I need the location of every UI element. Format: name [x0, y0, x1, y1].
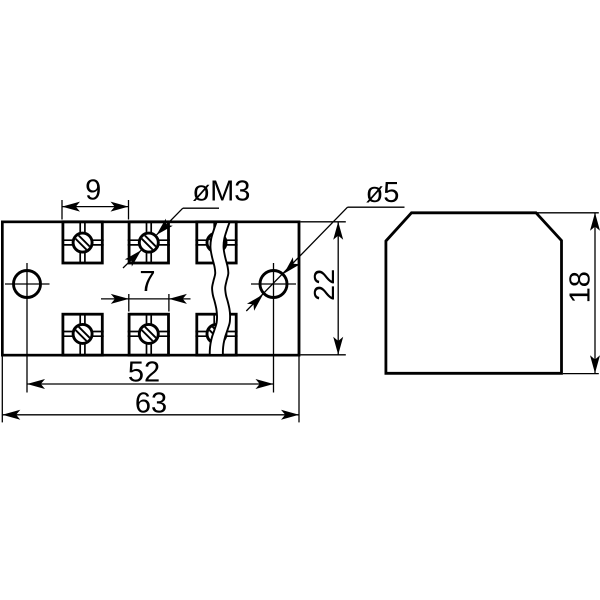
- svg-text:22: 22: [309, 269, 341, 301]
- dimension 52 (hole spacing): [27, 356, 274, 389]
- terminal screw A2: [128, 222, 170, 263]
- svg-text:52: 52: [128, 356, 160, 388]
- terminal screw A3: [195, 222, 237, 263]
- svg-text:øM3: øM3: [192, 176, 250, 208]
- terminal block body outline (front view): [2, 222, 299, 355]
- svg-text:18: 18: [564, 271, 596, 303]
- mounting hole right (diam 5): [260, 271, 287, 298]
- dimension 63 (overall length): [2, 357, 299, 423]
- leader label diameter 5 (mounting hole): [246, 177, 404, 311]
- side view outline (chamfered profile): [386, 213, 562, 373]
- svg-text:63: 63: [135, 387, 167, 419]
- right hole center lines: [251, 283, 296, 285]
- mounting hole left (diam 5): [14, 271, 41, 298]
- dimension 22 (body height): [300, 222, 345, 355]
- dimension 18 (side view height): [537, 213, 600, 374]
- terminal screw B2: [128, 314, 170, 355]
- svg-text:ø5: ø5: [366, 177, 400, 209]
- dimension 9 (terminal pitch): [62, 174, 129, 219]
- left hole center lines: [5, 283, 50, 285]
- svg-text:9: 9: [85, 174, 101, 206]
- terminal screw A1: [62, 222, 104, 263]
- body outline redraw over break: [2, 222, 299, 355]
- svg-text:7: 7: [139, 266, 155, 298]
- dimension 7 (terminal opening): [101, 266, 191, 311]
- terminal screw B3: [195, 314, 237, 355]
- break line (shortened view): [210, 222, 230, 357]
- leader label diameter M3 (screw thread): [123, 176, 250, 268]
- terminal screw B1: [62, 314, 104, 355]
